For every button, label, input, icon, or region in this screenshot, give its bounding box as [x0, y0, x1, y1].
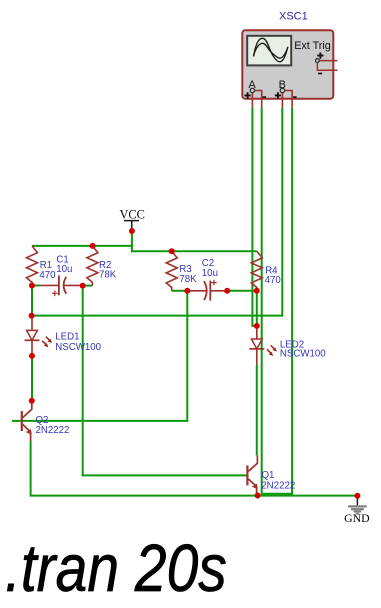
- LED1: [25, 316, 102, 356]
- scope pin A+ red stub: [251, 93, 253, 108]
- transistor Q1: [247, 455, 295, 495]
- junction dot R1 bottom: [29, 283, 35, 289]
- junction dot LED1 top: [29, 313, 35, 319]
- VCC power symbol: [119, 207, 144, 231]
- junction dot C2 right: [224, 288, 230, 294]
- wire VCC drop: [131, 231, 133, 252]
- svg-text:VCC: VCC: [119, 207, 144, 221]
- wire top rail right (VCC to R3/R4): [131, 250, 257, 252]
- junction dot R2 top: [90, 243, 96, 249]
- wire R4 bottom down to LED2: [256, 291, 258, 327]
- junction dot R4 bottom: [254, 288, 260, 294]
- plus sign B: [275, 92, 281, 98]
- minus sign A: [263, 96, 266, 98]
- minus sign B: [293, 96, 296, 98]
- svg-text:10u: 10u: [202, 268, 218, 279]
- capacitor C1: [40, 255, 82, 296]
- junction dot VCC: [129, 228, 135, 234]
- wire LED1 cathode down to Q2 collector: [31, 356, 33, 401]
- oscilloscope screen with sine wave: [247, 36, 291, 66]
- svg-text:78K: 78K: [99, 270, 117, 281]
- scope pin A- red stub: [255, 91, 262, 108]
- plus sign Ext Trig: [317, 53, 323, 59]
- resistor R1: [27, 246, 57, 286]
- svg-text:NSCW100: NSCW100: [280, 348, 326, 359]
- oscilloscope XSC1 body: [242, 30, 333, 99]
- wire scope A- down and over: [262, 108, 292, 494]
- ground symbol GND: [344, 496, 370, 525]
- scope pin B+ red stub: [281, 93, 283, 108]
- transistor Q2: [22, 401, 70, 441]
- junction dot LED1 bottom: [29, 353, 35, 359]
- junction dot Q1 emitter: [255, 493, 261, 499]
- svg-text:GND: GND: [344, 511, 370, 525]
- svg-text:Ext Trig: Ext Trig: [294, 40, 331, 52]
- junction dot GND: [354, 493, 360, 499]
- wire R3 bottom node down then left to Q2 base: [12, 291, 187, 421]
- ext trig pin stubs: [317, 61, 337, 71]
- resistor R4: [251, 251, 281, 291]
- minus sign Ext Trig: [318, 73, 322, 75]
- svg-text:470: 470: [265, 275, 282, 286]
- plus sign A: [245, 92, 251, 98]
- capacitor C2: [187, 258, 227, 301]
- wire R3 bottom jog: [172, 290, 188, 292]
- wire R1 bottom node down to LED1: [31, 286, 33, 316]
- wire scope B+ riser: [281, 108, 283, 317]
- terminal B: [280, 88, 284, 92]
- resistor R2: [87, 246, 117, 286]
- wire Q1 base run: [82, 474, 248, 476]
- svg-text:470: 470: [39, 270, 56, 281]
- svg-text:LED1: LED1: [55, 332, 79, 343]
- junction dot Q2 collector: [29, 398, 35, 404]
- wire C1/R2 node riser down to Q1 base run: [82, 286, 84, 476]
- svg-text:10u: 10u: [56, 264, 72, 275]
- terminal A: [250, 88, 254, 92]
- wire C2 right to R4 bottom: [227, 290, 257, 292]
- svg-text:2N2222: 2N2222: [261, 480, 295, 491]
- svg-text:78K: 78K: [179, 274, 197, 285]
- wire scope A+ riser to LED2 node: [252, 108, 256, 326]
- junction dot R3 bottom: [184, 288, 190, 294]
- LED2: [249, 326, 326, 365]
- svg-text:2N2222: 2N2222: [36, 425, 70, 436]
- resistor R3: [166, 251, 197, 291]
- wire R1 bottom to C1: [32, 285, 40, 287]
- svg-text:XSC1: XSC1: [279, 10, 308, 22]
- terminal Ext Trig: [316, 59, 320, 63]
- scope pin B- red stub: [285, 91, 293, 108]
- wire ground rail from Q2 emitter to GND: [31, 441, 358, 496]
- wire scope B- down to ground rail: [291, 108, 293, 496]
- junction dot C1/R2: [80, 283, 86, 289]
- wire LED2 cathode down to Q1 collector: [256, 365, 258, 456]
- wire R2 bottom jog to C1 node: [83, 285, 93, 287]
- wire top rail left (VCC to R1/R2): [32, 245, 133, 247]
- svg-text:NSCW100: NSCW100: [55, 342, 101, 353]
- wire LED1 top node horizontal: [31, 315, 282, 317]
- junction dot LED2/A+: [254, 323, 260, 329]
- junction dot R3 top: [169, 248, 175, 254]
- svg-text:.tran 20s: .tran 20s: [5, 532, 227, 603]
